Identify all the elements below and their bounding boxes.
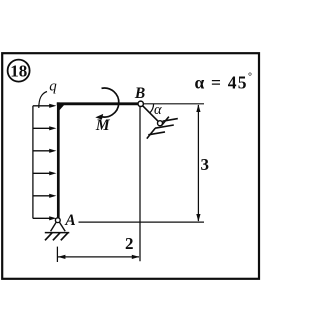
dimension 2 arrow right (132, 255, 140, 259)
angle arc at B (150, 104, 154, 113)
support A hatch 2 (53, 233, 60, 241)
pin circle B (138, 101, 143, 106)
load arrow 5 (33, 194, 57, 198)
q leader line (39, 92, 47, 109)
support A left leg (51, 222, 57, 231)
svg-text:A: A (64, 212, 75, 229)
horizontal line from A (79, 221, 205, 223)
column left member (57, 102, 60, 218)
problem number badge 18 (8, 60, 30, 82)
load arrow 4 (33, 171, 57, 175)
support A ground line (45, 232, 70, 234)
svg-text:α = 45: α = 45 (195, 72, 248, 92)
dimension 2 line (58, 256, 139, 258)
support A hatch 3 (61, 233, 68, 241)
support A right leg (59, 222, 65, 231)
link rod at B (143, 106, 159, 122)
dimension 2 arrow left (58, 255, 66, 259)
moment arc M (100, 88, 119, 117)
reference line from B (144, 103, 205, 105)
svg-text:B: B (134, 85, 145, 102)
svg-text:α: α (154, 102, 162, 118)
link support hatch 2 (147, 128, 155, 138)
svg-text:M: M (95, 117, 111, 134)
dimension 3 arrow up (196, 104, 200, 112)
svg-text:3: 3 (201, 155, 210, 174)
svg-text:°: ° (248, 72, 252, 83)
load arrow 1 (33, 104, 57, 108)
vertical extension line from B (139, 107, 141, 262)
extension line below A (56, 247, 58, 262)
load arrow 3 (33, 149, 57, 153)
dimension 3 arrow down (196, 214, 200, 222)
moment arrowhead (95, 114, 103, 120)
pin circle A (55, 218, 60, 223)
border frame (2, 53, 259, 279)
link support ground stroke 2 (155, 125, 174, 128)
distributed load line q (32, 106, 34, 219)
svg-text:q: q (49, 78, 57, 94)
dimension 3 line (197, 105, 199, 221)
beam top member (57, 102, 139, 105)
pin circle at link end (158, 121, 163, 126)
label alpha = 45 deg (195, 72, 253, 93)
corner fillet (57, 102, 65, 110)
load arrow 2 (33, 126, 57, 130)
svg-text:18: 18 (10, 61, 27, 80)
support A hatch 1 (45, 233, 52, 241)
link support hatch 1 (161, 117, 169, 126)
link support ground stroke 1 (163, 119, 178, 122)
load arrow 6 (33, 216, 57, 220)
svg-text:2: 2 (125, 234, 134, 253)
link support ground stroke 3 (148, 132, 165, 135)
